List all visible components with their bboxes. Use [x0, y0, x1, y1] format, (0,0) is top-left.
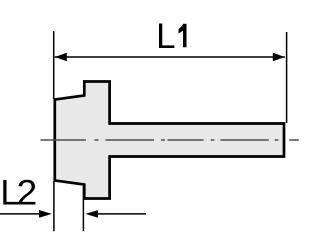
part body (plug with flange, collar and shaft)	[55, 82, 284, 199]
svg-text:L: L	[156, 17, 175, 56]
L1 left arrowhead	[55, 53, 67, 62]
L1 right extension line	[286, 32, 288, 123]
L1 dimension line	[55, 56, 285, 58]
L2 left extension line	[53, 181, 55, 231]
L2 dimension line right tail	[97, 213, 146, 215]
L2 right extension line	[82, 186, 84, 231]
L2 left arrowhead	[39, 210, 52, 218]
L2 right arrowhead	[86, 210, 99, 218]
svg-text:2: 2	[17, 174, 38, 213]
centerline	[41, 139, 299, 141]
L1 left extension line	[53, 31, 55, 99]
L1 right arrowhead	[273, 53, 285, 62]
digit 1 of label L1 (drawn, no foot serif)	[179, 24, 187, 48]
L2 dimension line left tail	[0, 213, 40, 215]
